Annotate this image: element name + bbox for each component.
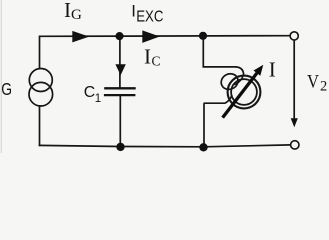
wire capacitor branch lower: [119, 96, 121, 147]
wire V2 arrow stem: [293, 40, 295, 120]
capacitor C1 plates: [104, 88, 136, 95]
wire left vertical lower: [39, 105, 41, 146]
svg-text:C: C: [84, 84, 95, 101]
svg-text:G: G: [71, 7, 82, 23]
voltage arrow V2 head (down): [291, 118, 298, 127]
meter arrow head: [254, 65, 264, 76]
svg-text:G: G: [1, 79, 12, 99]
svg-text:I: I: [144, 45, 151, 69]
svg-text:2: 2: [320, 79, 327, 95]
wire curl out of probe (bottom): [225, 95, 232, 103]
svg-text:EXC: EXC: [136, 9, 163, 26]
svg-text:1: 1: [95, 93, 101, 105]
wire left vertical upper: [39, 36, 41, 70]
meter inner ring: [231, 79, 257, 105]
current probe / meter on right branch: [218, 67, 260, 108]
terminal top right: [290, 32, 298, 40]
meter arrow shaft: [223, 71, 259, 118]
current source G (two overlapping circles): [29, 69, 53, 106]
faint scan edge at left: [0, 0, 2, 153]
svg-text:I: I: [64, 0, 71, 22]
wire bottom horizontal: [39, 145, 291, 147]
wire curl crossing over loop: [234, 75, 244, 85]
label C1: [84, 84, 101, 105]
node: top junction at right bus: [199, 32, 207, 40]
label V2: [307, 72, 327, 95]
current arrow IEXC: [142, 30, 160, 43]
current arrow IG: [72, 31, 89, 43]
wire right bus upper: [203, 36, 236, 67]
label IG: [64, 0, 82, 23]
meter outer ring: [228, 76, 261, 109]
node: top junction at capacitor branch: [115, 32, 123, 40]
terminal bottom right: [291, 141, 299, 149]
wire top horizontal: [39, 35, 290, 38]
label IC: [144, 45, 161, 69]
wire loop through probe: [218, 71, 240, 92]
label IEXC: [131, 1, 163, 25]
current arrow IC (down): [115, 64, 125, 75]
svg-text:C: C: [152, 53, 161, 68]
svg-text:V: V: [307, 72, 319, 93]
wire curl into probe (top): [236, 67, 244, 76]
wire right bus lower: [204, 102, 226, 104]
node: bottom junction at capacitor branch: [116, 143, 124, 151]
node: bottom junction at right bus: [199, 143, 207, 151]
svg-text:I: I: [131, 1, 136, 20]
wire capacitor branch upper: [119, 36, 121, 88]
svg-text:I: I: [269, 58, 276, 82]
